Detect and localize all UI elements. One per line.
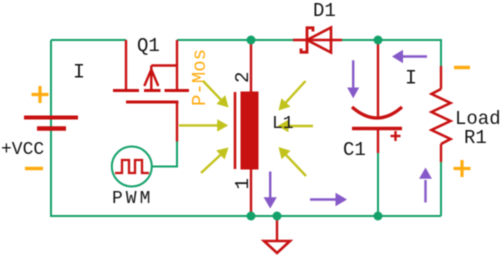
battery plus orange xyxy=(32,86,49,103)
svg-text:Q1: Q1 xyxy=(137,35,160,57)
ground symbol xyxy=(264,241,290,253)
arrow olive lower-right at L1 xyxy=(279,147,307,176)
svg-text:P-Mos: P-Mos xyxy=(189,49,211,106)
resistor plus orange xyxy=(454,160,471,177)
PWM source circle xyxy=(112,147,152,187)
arrow purple top-right pointing left xyxy=(392,50,427,63)
svg-text:2: 2 xyxy=(232,72,254,83)
transistor Q1 xyxy=(113,40,189,142)
svg-text:R1: R1 xyxy=(464,127,487,149)
svg-text:I: I xyxy=(73,62,85,85)
arrow purple right at bottom xyxy=(310,193,347,207)
arrow olive middle-left at L1 xyxy=(179,119,228,131)
wire left and bottom green loop xyxy=(51,40,441,216)
node bottom L1 xyxy=(247,212,256,221)
arrow olive lower-left at L1 xyxy=(201,148,229,174)
capacitor C1 top wire xyxy=(377,40,379,117)
diode D1 triangle xyxy=(307,28,331,53)
wire PWM to gate green segment xyxy=(152,141,178,167)
inductor L1 red branch top wire xyxy=(250,40,252,92)
arrow purple down at C1 xyxy=(347,60,359,98)
capacitor C1 plus sign xyxy=(391,131,401,141)
battery B1 xyxy=(24,118,78,129)
resistor R1 top red lead xyxy=(440,66,442,89)
wire top-right segment xyxy=(342,40,441,66)
wire C1 lower green segment xyxy=(377,153,379,216)
arrow olive upper-right at L1 xyxy=(279,81,306,111)
svg-text:+VCC: +VCC xyxy=(1,140,44,160)
diode D1 cathode bar with schottky hooks xyxy=(301,28,313,52)
svg-text:D1: D1 xyxy=(313,0,336,22)
capacitor C1 bottom plate xyxy=(352,127,402,131)
arrow olive middle-right at L1 xyxy=(278,120,314,132)
svg-text:I: I xyxy=(405,68,417,91)
svg-text:1: 1 xyxy=(232,178,254,189)
node bottom ground xyxy=(273,212,282,221)
svg-text:L1: L1 xyxy=(272,114,294,134)
inductor L1 red branch bottom wire xyxy=(250,169,252,216)
battery minus orange xyxy=(25,167,43,171)
node top C1 xyxy=(374,36,383,45)
arrow olive upper-left at L1 xyxy=(203,81,229,108)
resistor R1 zigzag xyxy=(432,89,451,144)
svg-text:PWM: PWM xyxy=(112,189,153,209)
svg-text:C1: C1 xyxy=(343,139,366,161)
capacitor C1 curved plate xyxy=(352,107,402,118)
inductor L1 body xyxy=(241,92,259,170)
resistor minus orange xyxy=(454,66,470,70)
PWM square wave xyxy=(115,160,149,173)
wire top-middle segment xyxy=(177,39,293,41)
inductor L1 core line xyxy=(234,92,237,169)
arrow purple up at R1 xyxy=(419,168,432,203)
node top L1 xyxy=(247,36,256,45)
capacitor C1 middle wire xyxy=(377,129,379,153)
arrow purple down below L1 xyxy=(264,172,277,209)
wire top-left segment xyxy=(51,39,126,41)
resistor R1 bottom red lead xyxy=(440,144,442,162)
ground wire xyxy=(276,216,278,240)
wire right-lower segment xyxy=(440,162,442,216)
node bottom C1 xyxy=(374,212,383,221)
diode D1 red wire xyxy=(293,39,342,41)
